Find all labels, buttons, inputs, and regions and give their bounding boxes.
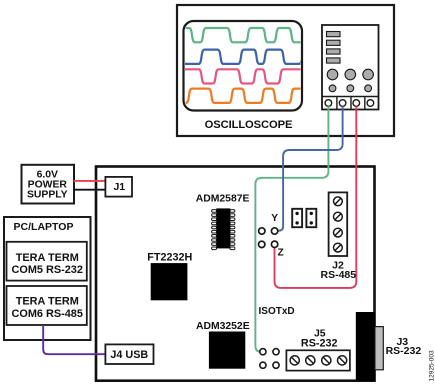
test point ISOTxD 2: [273, 349, 279, 355]
BNC input strip: [322, 97, 379, 110]
J5 screw terminal 4: [338, 356, 347, 365]
BNC connector CH2: [339, 100, 346, 107]
J5 screw terminal 2: [306, 356, 315, 365]
waveform trace CH4 (orange): [183, 89, 303, 103]
J5 screw terminal 3: [322, 356, 331, 365]
svg-text:RS-232: RS-232: [386, 345, 422, 357]
J3 label: [386, 336, 422, 357]
BNC connector CH3: [353, 100, 360, 107]
J2 screw terminal 3: [334, 228, 343, 237]
svg-text:SUPPLY: SUPPLY: [27, 190, 68, 201]
jumper block 1: [292, 209, 302, 227]
svg-text:OSCILLOSCOPE: OSCILLOSCOPE: [205, 119, 293, 131]
panel button 4: [327, 58, 341, 63]
small knob 2: [347, 85, 354, 92]
IC ADM2587E package: [212, 208, 235, 249]
wire power return (black): [74, 189, 106, 191]
oscilloscope enclosure box: [177, 5, 394, 136]
svg-text:PC/LAPTOP: PC/LAPTOP: [14, 221, 74, 233]
panel button 3: [327, 49, 341, 54]
panel button 1: [327, 32, 341, 37]
svg-text:ADM3252E: ADM3252E: [196, 321, 250, 332]
connector J5 terminal block: [286, 350, 350, 370]
test point left of Y: [259, 228, 265, 234]
connector J3 DB9 shell: [375, 327, 383, 370]
test point node Y: [271, 228, 277, 234]
svg-text:Z: Z: [277, 248, 283, 259]
test point ISOTxD 3: [260, 362, 266, 368]
Tera Term COM5 box: [7, 242, 87, 281]
test point left of Z: [259, 241, 265, 247]
wire USB (purple): COM6 to J4: [43, 325, 105, 354]
svg-text:ADM2587E: ADM2587E: [196, 193, 250, 204]
wire power positive (red): [74, 180, 106, 182]
small knob 3: [365, 85, 372, 92]
waveform trace CH2 (blue): [183, 50, 305, 64]
wire blue probe: scope CH2 BNC to node Y: [278, 106, 342, 230]
J5 screw terminal 1: [290, 356, 299, 365]
svg-text:TERA TERM: TERA TERM: [16, 252, 79, 264]
jumper block 2: [306, 209, 316, 227]
connector J1: [105, 177, 132, 197]
wire red probe: scope CH3 BNC to node Z: [275, 106, 357, 288]
svg-text:J1: J1: [113, 181, 125, 193]
test point ISOTxD 4: [273, 362, 279, 368]
BNC connector CH4: [367, 100, 374, 107]
J5 label: [301, 327, 338, 349]
svg-text:ISOTxD: ISOTxD: [259, 306, 295, 317]
BNC connector CH1: [325, 100, 332, 107]
test point node Z: [271, 241, 277, 247]
svg-text:J4 USB: J4 USB: [110, 349, 148, 361]
knob 1: [327, 69, 338, 80]
waveform trace CH3 (pink): [183, 69, 303, 83]
svg-text:COM5 RS-232: COM5 RS-232: [11, 264, 82, 276]
connector J2 terminal block: [329, 192, 348, 256]
svg-text:RS-485: RS-485: [320, 269, 356, 281]
panel button 2: [327, 40, 341, 45]
wire green probe: scope CH1 BNC to ISOTxD test point: [255, 106, 328, 351]
J2 label: [320, 259, 356, 281]
svg-text:RS-232: RS-232: [301, 338, 338, 350]
J2 screw terminal 4: [334, 243, 343, 252]
svg-text:COM6 RS-485: COM6 RS-485: [11, 308, 82, 320]
svg-text:Y: Y: [271, 213, 278, 224]
Tera Term COM6 box: [7, 286, 87, 325]
PC/LAPTOP box: [4, 217, 91, 340]
oscilloscope front panel: [322, 25, 379, 110]
power supply box: [22, 165, 75, 204]
connector J4 USB: [105, 344, 153, 364]
knob 3: [363, 69, 374, 80]
waveform trace CH1 (green): [183, 28, 303, 42]
IC FT2232H body: [151, 263, 188, 300]
svg-text:12925-003: 12925-003: [429, 350, 435, 381]
test point ISOTxD 1: [260, 349, 266, 355]
svg-text:FT2232H: FT2232H: [147, 252, 192, 264]
J2 screw terminal 1: [334, 197, 343, 252]
small knob 1: [329, 85, 336, 92]
evaluation board outline: [96, 167, 375, 381]
svg-text:TERA TERM: TERA TERM: [16, 296, 79, 308]
oscilloscope screen bezel: [184, 21, 303, 111]
connector J3 body: [356, 312, 376, 381]
power supply label: [27, 170, 68, 201]
IC ADM3252E body: [209, 332, 245, 369]
knob 2: [345, 69, 356, 80]
J2 screw terminal 2: [334, 212, 343, 221]
